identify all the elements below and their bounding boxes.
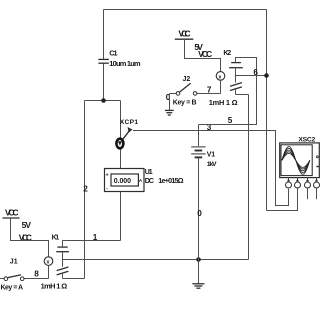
- svg-text:U1: U1: [145, 169, 153, 176]
- wire node 2 down to U1 through probe: [120, 101, 122, 169]
- scope terminal A pin: [286, 178, 292, 189]
- relay K2 armature bottom lead: [235, 89, 237, 94]
- relay K1 contact plates: [57, 246, 67, 248]
- wire K1 armature to node 2: [63, 278, 85, 280]
- svg-text:1e+015Ω: 1e+015Ω: [158, 176, 183, 185]
- wire node 2 left vertical: [84, 101, 86, 279]
- wire right vertical node 6 to scope B: [266, 10, 268, 211]
- source V1 bottom lead node 0: [198, 158, 200, 283]
- svg-text:2: 2: [83, 185, 88, 194]
- relay K1 contact top lead: [62, 241, 64, 247]
- switch J2: [170, 76, 197, 107]
- node 1 wire: [63, 240, 121, 242]
- svg-text:V1: V1: [207, 152, 215, 159]
- relay K1 armature strokes: [57, 267, 69, 271]
- scope terminal B pin: [295, 178, 301, 189]
- node 6 wire: [236, 75, 267, 77]
- svg-text:0.000: 0.000: [114, 178, 131, 185]
- svg-text:1mH 1 Ω: 1mH 1 Ω: [209, 98, 238, 107]
- battery V1: [191, 147, 217, 168]
- switch J1: [0, 258, 24, 291]
- junction dot node 6: [264, 73, 269, 78]
- wire scope terminal 3 stub: [307, 188, 309, 199]
- svg-text:XCP1: XCP1: [120, 119, 139, 126]
- wire top rail node 6: [104, 9, 267, 11]
- ammeter U1: [105, 169, 184, 192]
- wire XCP1 output node 3 to scope A: [133, 131, 289, 206]
- wire K1 coil bottom: [48, 265, 50, 278]
- svg-text:1: 1: [93, 233, 98, 242]
- svg-text:DC: DC: [145, 176, 154, 185]
- svg-text:5V: 5V: [22, 220, 32, 230]
- wire J2 to ground: [169, 94, 171, 111]
- junction dot C1-node2: [101, 98, 106, 103]
- relay K2 contact top lead and node 5 routing: [199, 58, 257, 125]
- current probe XCP1: [116, 119, 138, 148]
- relay K2 contact middle lead: [235, 68, 237, 82]
- svg-text:0: 0: [166, 93, 171, 102]
- relay K2 armature strokes: [230, 83, 242, 87]
- ground at J2: [165, 110, 174, 115]
- relay K1 armature bottom lead: [62, 274, 64, 279]
- relay K2 coil: [216, 50, 231, 81]
- relay K1 contact middle lead: [62, 252, 64, 266]
- svg-text:Key = A: Key = A: [1, 285, 24, 292]
- wire K2 armature down right side: [248, 95, 250, 260]
- svg-text:1kV: 1kV: [207, 161, 217, 168]
- svg-text:C1: C1: [109, 48, 117, 57]
- node 2 wire horizontal: [85, 100, 121, 102]
- svg-text:K2: K2: [223, 50, 231, 57]
- svg-text:x: x: [218, 74, 221, 80]
- capacitor C1: [98, 48, 141, 67]
- vcc symbol top VCC: [175, 28, 212, 59]
- svg-text:1mH 1 Ω: 1mH 1 Ω: [41, 282, 68, 291]
- svg-text:8: 8: [34, 270, 39, 279]
- wire scope terminal 4 stub: [316, 188, 318, 199]
- junction dot V1 bottom: [196, 257, 201, 262]
- wire C1 bottom lead: [103, 64, 105, 101]
- svg-text:+: +: [106, 172, 109, 178]
- wire scope B bracket: [267, 188, 298, 211]
- node 0 bottom wire: [63, 259, 249, 261]
- svg-text:VCC: VCC: [178, 28, 190, 38]
- svg-text:0: 0: [197, 209, 202, 218]
- vcc symbol bottom VCC: [2, 207, 32, 242]
- wire K2 armature hook: [236, 94, 249, 96]
- svg-text:J1: J1: [10, 258, 18, 265]
- relay K1 coil: [44, 257, 53, 266]
- source V1 top lead: [198, 125, 200, 147]
- ground main: [192, 284, 204, 288]
- oscilloscope XSC2: [280, 137, 320, 178]
- wire K2 coil bottom: [220, 80, 222, 93]
- svg-text:J2: J2: [183, 76, 191, 83]
- svg-text:6: 6: [253, 68, 258, 77]
- wire C1 top lead: [103, 10, 105, 59]
- wire J1 to K1 coil node 8: [24, 278, 49, 280]
- wire U1 bottom lead: [120, 192, 122, 241]
- relay K2 contact plates: [231, 62, 241, 64]
- svg-text:Key = B: Key = B: [173, 100, 197, 107]
- svg-text:10um 1um: 10um 1um: [109, 59, 141, 68]
- wire VCC to K2 coil: [185, 39, 221, 71]
- svg-text:x: x: [46, 260, 49, 266]
- svg-text:7: 7: [207, 86, 212, 95]
- wire J2 to K2 coil node 7: [197, 93, 221, 95]
- svg-text:VCC: VCC: [5, 207, 19, 217]
- svg-text:K1: K1: [52, 235, 60, 242]
- scope terminal 4 pin: [314, 178, 320, 189]
- wire VCC to K1 coil: [11, 218, 49, 257]
- svg-text:5: 5: [228, 116, 233, 125]
- svg-text:VCC: VCC: [198, 49, 212, 59]
- scope terminal 3 pin: [305, 178, 311, 189]
